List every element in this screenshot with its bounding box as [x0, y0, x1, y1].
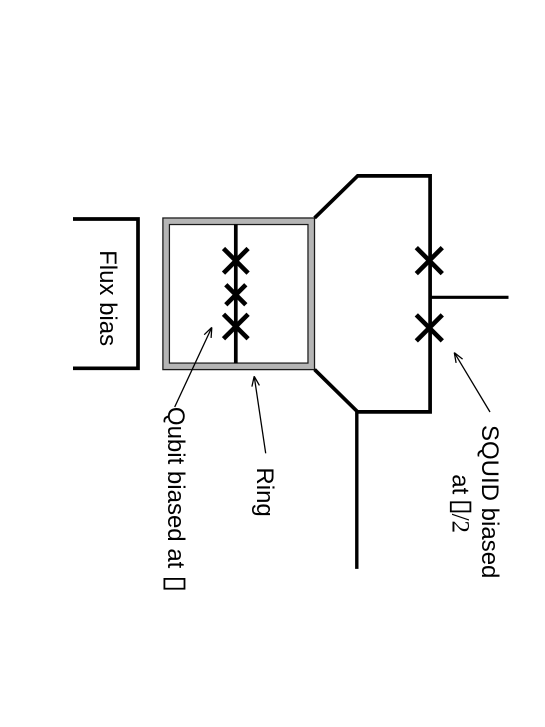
svg-text:at: at: [447, 474, 474, 494]
svg-text:Flux bias: Flux bias: [94, 250, 121, 346]
svg-text:SQUID biased: SQUID biased: [476, 425, 503, 578]
svg-text:/2: /2: [447, 514, 474, 533]
svg-text:Ring: Ring: [251, 467, 278, 516]
svg-text:Qubit biased at: Qubit biased at: [162, 407, 189, 569]
